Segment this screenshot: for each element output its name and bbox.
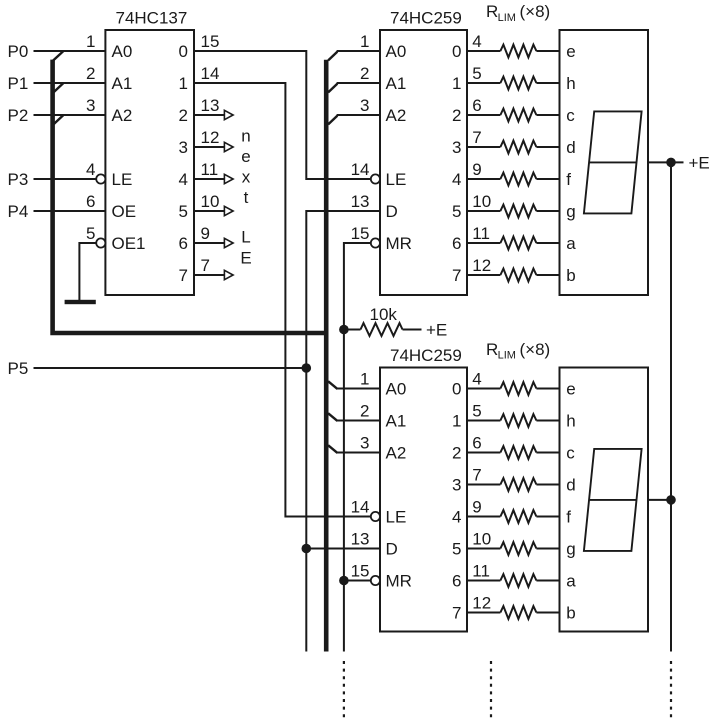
svg-text:7: 7 [472, 466, 481, 485]
svg-text:2: 2 [360, 64, 369, 83]
svg-text:E: E [240, 248, 251, 267]
svg-text:0: 0 [452, 42, 461, 61]
ground [65, 300, 96, 304]
wire P5 to node D (data net) [34, 367, 307, 369]
wire U1 output Y7 stub [194, 274, 224, 276]
svg-text:2: 2 [452, 444, 461, 463]
svg-text:6: 6 [472, 434, 481, 453]
wire U1 output Y5 stub [194, 210, 224, 212]
svg-text:b: b [566, 266, 575, 285]
wire R_LIM to display segment a [536, 580, 559, 582]
svg-text:a: a [566, 234, 576, 253]
IC U2 74HC259 body [380, 30, 467, 295]
wire DS2 common to +E [648, 499, 671, 501]
svg-text:6: 6 [472, 96, 481, 115]
svg-text:A2: A2 [386, 106, 407, 125]
svg-text:3: 3 [452, 138, 461, 157]
bus entry P1 [53, 83, 63, 92]
wire R_LIM to display segment c [536, 452, 559, 454]
resistor R_LIM segment e [500, 382, 536, 395]
svg-text:f: f [566, 170, 571, 189]
svg-text:10: 10 [472, 530, 491, 549]
svg-text:9: 9 [472, 160, 481, 179]
wire U1 output Y6 stub [194, 242, 224, 244]
wire U3.D pin 13 [306, 548, 380, 550]
wire R_LIM to display segment a [536, 242, 559, 244]
bus entry U2.A1 [328, 84, 337, 93]
DS2 seven-segment digit glyph [584, 449, 642, 551]
wire U2.Q3 to R_LIM [467, 146, 500, 148]
wire R_LIM to display segment h [536, 82, 559, 84]
wire net Y0: U1 pin15 to U2.LE [194, 51, 370, 179]
svg-text:0: 0 [179, 42, 188, 61]
wire bus to U2.A1 [337, 82, 380, 84]
wire U2.Q2 to R_LIM [467, 114, 500, 116]
svg-text:P2: P2 [8, 106, 29, 125]
junction +E top [666, 158, 676, 168]
svg-text:A2: A2 [386, 444, 407, 463]
svg-text:x: x [242, 168, 251, 187]
wire U2.Q7 to R_LIM [467, 274, 500, 276]
svg-text:e: e [566, 380, 575, 399]
svg-text:74HC259: 74HC259 [390, 9, 462, 28]
resistor R_LIM segment c [500, 109, 536, 122]
resistor R_LIM segment g [500, 542, 536, 555]
wire R_LIM to display segment e [536, 388, 559, 390]
open arrow Y5 [224, 206, 233, 215]
svg-text:LE: LE [112, 170, 133, 189]
bus entry U2.A2 [328, 116, 337, 125]
svg-text:10: 10 [472, 192, 491, 211]
IC U3 74HC259 body [380, 368, 467, 632]
svg-text:n: n [241, 127, 250, 146]
svg-text:R: R [486, 2, 498, 21]
svg-text:LIM: LIM [498, 12, 516, 24]
resistor R_LIM segment g [500, 205, 536, 218]
svg-text:5: 5 [452, 540, 461, 559]
svg-text:5: 5 [472, 402, 481, 421]
svg-text:A2: A2 [112, 106, 133, 125]
svg-text:5: 5 [452, 202, 461, 221]
wire U2.Q4 to R_LIM [467, 178, 500, 180]
bus entry P0 [53, 51, 63, 60]
svg-text:4: 4 [452, 508, 461, 527]
junction P5/D net [302, 363, 312, 373]
wire bus to U2.A0 [337, 50, 380, 52]
wire P0 to U1.A0 [34, 50, 106, 52]
junction D net to U3.D [302, 544, 312, 554]
junction MR net / 10k pull-up [339, 325, 349, 335]
svg-text:A0: A0 [386, 42, 407, 61]
svg-text:13: 13 [351, 192, 370, 211]
svg-text:c: c [566, 106, 575, 125]
bus entry U3.A1 [328, 413, 337, 421]
wire P4 to U1.OE [34, 210, 106, 212]
svg-text:D: D [386, 202, 398, 221]
bus entry U3.A2 [328, 445, 337, 453]
wire R_LIM to display segment h [536, 420, 559, 422]
resistor R_LIM segment h [500, 414, 536, 427]
wire net +E vertical [670, 162, 672, 651]
svg-text:4: 4 [472, 370, 481, 389]
svg-text:2: 2 [179, 106, 188, 125]
wire bus to U3.A0 [337, 388, 380, 390]
svg-text:6: 6 [179, 234, 188, 253]
svg-text:9: 9 [201, 224, 210, 243]
svg-text:5: 5 [179, 202, 188, 221]
svg-text:13: 13 [201, 96, 220, 115]
open arrow Y2 [224, 110, 233, 119]
svg-text:d: d [566, 476, 575, 495]
wire U1 output Y4 stub [194, 178, 224, 180]
svg-text:7: 7 [452, 604, 461, 623]
svg-text:P4: P4 [8, 202, 29, 221]
svg-text:(×8): (×8) [520, 2, 551, 21]
open arrow Y3 [224, 142, 233, 151]
svg-text:4: 4 [86, 160, 95, 179]
wire R_LIM to display segment c [536, 114, 559, 116]
bus: address bus (P0-P2) left vertical + bottom horizontal [53, 60, 327, 333]
wire P2 to U1.A2 [34, 114, 106, 116]
svg-text:P0: P0 [8, 42, 29, 61]
svg-text:L: L [241, 228, 250, 247]
wire U3.Q0 to R_LIM [467, 388, 500, 390]
svg-text:11: 11 [201, 160, 219, 179]
svg-text:12: 12 [472, 594, 491, 613]
svg-text:e: e [566, 42, 575, 61]
wire U3.Q6 to R_LIM [467, 580, 500, 582]
resistor R_LIM segment a [500, 574, 536, 587]
svg-text:3: 3 [86, 96, 95, 115]
svg-text:(×8): (×8) [520, 340, 551, 359]
svg-text:LE: LE [386, 170, 407, 189]
open arrow Y4 [224, 174, 233, 183]
wire DS1 common to +E [648, 161, 684, 163]
display DS1 body [560, 30, 649, 295]
svg-text:+E: +E [689, 154, 710, 173]
svg-text:g: g [566, 202, 575, 221]
wire R_LIM to display segment g [536, 548, 559, 550]
svg-text:7: 7 [472, 128, 481, 147]
wire U2.Q1 to R_LIM [467, 82, 500, 84]
svg-text:2: 2 [360, 402, 369, 421]
wire P1 to U1.A1 [34, 82, 106, 84]
wire U2.Q6 to R_LIM [467, 242, 500, 244]
svg-text:5: 5 [472, 64, 481, 83]
wire U3.Q2 to R_LIM [467, 452, 500, 454]
wire U1.OE1 to ground [79, 243, 96, 300]
wire R_LIM to display segment b [536, 274, 559, 276]
svg-text:MR: MR [386, 234, 412, 253]
svg-text:15: 15 [201, 32, 220, 51]
wire U2.Q5 to R_LIM [467, 210, 500, 212]
wire U3.Q4 to R_LIM [467, 516, 500, 518]
resistor R_LIM segment a [500, 237, 536, 250]
wire R_LIM to display segment f [536, 516, 559, 518]
bus entry U2.A0 [328, 52, 337, 61]
svg-text:4: 4 [452, 170, 461, 189]
resistor R_LIM segment h [500, 77, 536, 90]
svg-text:+E: +E [426, 321, 447, 340]
svg-text:7: 7 [452, 266, 461, 285]
open arrow Y7 [224, 270, 233, 279]
IC U1 74HC137 body [105, 30, 194, 295]
open arrow Y6 [224, 238, 233, 247]
wire R_LIM to display segment f [536, 178, 559, 180]
resistor R_LIM segment d [500, 478, 536, 491]
resistor R_LIM segment c [500, 446, 536, 459]
svg-text:74HC137: 74HC137 [116, 9, 188, 28]
svg-text:D: D [386, 540, 398, 559]
svg-text:A1: A1 [112, 74, 133, 93]
svg-text:3: 3 [360, 434, 369, 453]
svg-text:P5: P5 [8, 359, 29, 378]
svg-text:MR: MR [386, 572, 412, 591]
resistor R_LIM segment d [500, 141, 536, 154]
svg-text:3: 3 [179, 138, 188, 157]
svg-text:e: e [241, 147, 250, 166]
svg-text:a: a [566, 572, 576, 591]
resistor 10k pull-up to +E [344, 329, 361, 331]
wire R_LIM to display segment d [536, 146, 559, 148]
wire U3.Q3 to R_LIM [467, 484, 500, 486]
junction +E bottom [666, 495, 676, 505]
wire net Y1: U1 pin14 to U3.LE [194, 83, 370, 517]
DS1 seven-segment digit glyph [584, 111, 642, 213]
wire U3.Q1 to R_LIM [467, 420, 500, 422]
svg-text:g: g [566, 540, 575, 559]
svg-text:7: 7 [201, 256, 210, 275]
wire bus to U2.A2 [337, 114, 380, 116]
svg-text:t: t [244, 188, 249, 207]
svg-text:6: 6 [452, 572, 461, 591]
svg-text:5: 5 [86, 224, 95, 243]
wire U3.Q7 to R_LIM [467, 612, 500, 614]
svg-text:12: 12 [201, 128, 220, 147]
svg-text:1: 1 [452, 74, 461, 93]
svg-text:13: 13 [351, 530, 370, 549]
svg-text:1: 1 [86, 32, 95, 51]
bus: address bus right vertical [324, 60, 329, 652]
svg-text:d: d [566, 138, 575, 157]
svg-text:b: b [566, 604, 575, 623]
svg-text:10: 10 [201, 192, 220, 211]
svg-text:14: 14 [201, 64, 220, 83]
svg-text:OE: OE [112, 202, 137, 221]
svg-text:LE: LE [386, 508, 407, 527]
display DS2 body [560, 368, 649, 632]
svg-text:2: 2 [86, 64, 95, 83]
svg-text:2: 2 [452, 106, 461, 125]
svg-text:A1: A1 [386, 412, 407, 431]
resistor R_LIM segment f [500, 173, 536, 186]
svg-text:P1: P1 [8, 74, 29, 93]
continuation dots: +E net [670, 661, 672, 720]
svg-text:A1: A1 [386, 74, 407, 93]
resistor R_LIM segment f [500, 510, 536, 523]
svg-text:h: h [566, 412, 575, 431]
svg-text:4: 4 [179, 170, 188, 189]
wire net MR: U2.MR down to bottom [344, 243, 371, 652]
svg-text:OE1: OE1 [112, 234, 146, 253]
wire U1 output Y3 stub [194, 146, 224, 148]
wire U1 output Y2 stub [194, 114, 224, 116]
svg-text:1: 1 [452, 412, 461, 431]
wire P3 to U1.LE [34, 178, 97, 180]
svg-text:12: 12 [472, 256, 491, 275]
resistor R_LIM segment b [500, 606, 536, 619]
svg-text:10k: 10k [370, 305, 398, 324]
annotation "next" (vertical) [241, 127, 250, 207]
bus entry P2 [53, 115, 63, 124]
wire R_LIM to display segment g [536, 210, 559, 212]
svg-text:7: 7 [179, 266, 188, 285]
junction MR net to U3.MR [339, 576, 349, 586]
svg-text:11: 11 [472, 224, 490, 243]
continuation dots: MR net [343, 661, 345, 720]
svg-text:11: 11 [472, 562, 490, 581]
wire R_LIM to display segment d [536, 484, 559, 486]
svg-text:1: 1 [179, 74, 188, 93]
svg-text:6: 6 [86, 192, 95, 211]
wire R_LIM to display segment b [536, 612, 559, 614]
svg-text:6: 6 [452, 234, 461, 253]
svg-text:f: f [566, 508, 571, 527]
svg-text:0: 0 [452, 380, 461, 399]
wire U3.MR pin 15 [344, 580, 371, 582]
annotation "LE" (vertical) [240, 228, 251, 268]
wire R_LIM to display segment e [536, 50, 559, 52]
svg-text:h: h [566, 74, 575, 93]
svg-text:R: R [486, 340, 498, 359]
resistor R_LIM segment b [500, 269, 536, 282]
svg-text:3: 3 [360, 96, 369, 115]
svg-text:A0: A0 [112, 42, 133, 61]
svg-text:14: 14 [351, 160, 370, 179]
bus entry U3.A0 [328, 381, 337, 389]
svg-text:15: 15 [351, 562, 370, 581]
wire U2.Q0 to R_LIM [467, 50, 500, 52]
wire U3.Q5 to R_LIM [467, 548, 500, 550]
svg-text:15: 15 [351, 224, 370, 243]
continuation dots: middle [490, 661, 492, 720]
svg-text:LIM: LIM [498, 350, 516, 362]
wire bus to U3.A1 [337, 420, 380, 422]
svg-text:14: 14 [351, 498, 370, 517]
wire net D (data): U2.D down past P5 junction to bottom [306, 211, 380, 652]
resistor R_LIM segment e [500, 45, 536, 58]
svg-text:4: 4 [472, 32, 481, 51]
svg-text:A0: A0 [386, 380, 407, 399]
svg-text:1: 1 [360, 32, 369, 51]
svg-text:P3: P3 [8, 170, 29, 189]
svg-text:3: 3 [452, 476, 461, 495]
svg-text:1: 1 [360, 370, 369, 389]
wire bus to U3.A2 [337, 452, 380, 454]
svg-text:74HC259: 74HC259 [390, 346, 462, 365]
svg-text:c: c [566, 444, 575, 463]
svg-text:9: 9 [472, 498, 481, 517]
